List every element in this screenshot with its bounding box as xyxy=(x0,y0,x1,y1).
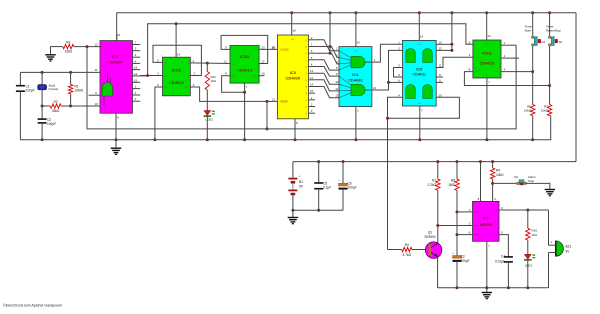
junction thresh/discharge b xyxy=(456,233,459,236)
svg-text:NE555: NE555 xyxy=(480,222,493,227)
IC4 left pin labels xyxy=(335,47,339,98)
wire: IC2/2 pin13 Q to IC3 pin10 clock xyxy=(259,45,277,49)
svg-text:Vss: Vss xyxy=(485,75,488,77)
svg-text:C4: C4 xyxy=(501,255,505,259)
svg-text:©ElecCircuit.com Apichet Gara: ©ElecCircuit.com Apichet Garaipoom xyxy=(3,304,62,308)
svg-text:100pF: 100pF xyxy=(47,122,56,126)
wire: Q1 collector up to R7b xyxy=(437,226,439,244)
svg-text:Q1: Q1 xyxy=(428,231,432,235)
wire: IC2/1 D-Qbar loop xyxy=(153,45,201,75)
IC5 pin9/8 stubs xyxy=(436,77,443,82)
svg-text:1kΩ: 1kΩ xyxy=(532,233,538,237)
svg-text:10: 10 xyxy=(335,80,339,84)
IC5 left pin labels xyxy=(398,40,400,97)
wire: IC2/2 pin7 down to ground bus xyxy=(245,83,248,140)
resistor R10 1k xyxy=(526,210,538,254)
capacitor C6 (electrolytic) xyxy=(338,162,357,211)
junction R3 / reset riser xyxy=(86,45,89,48)
svg-text:CD4020: CD4020 xyxy=(286,76,301,81)
svg-text:+: + xyxy=(338,179,340,183)
junction VDD rail 555 pin8 xyxy=(479,160,482,163)
IC7 left pins xyxy=(438,208,473,235)
wire: IC3 to IC4 braid xyxy=(315,40,339,98)
wire: IC5 pin4 to Q1 base line xyxy=(388,97,403,249)
IC7 pin8 stub to VDD rail xyxy=(478,162,481,202)
IC6 pin2 stub xyxy=(501,57,519,59)
junction Q1a / R11 xyxy=(206,62,209,65)
IC1 internal pin marks xyxy=(102,47,104,75)
IC5 pin14 stub xyxy=(419,13,423,41)
junction on top rail at S2 xyxy=(548,11,551,14)
resistor R1 10M xyxy=(68,72,83,106)
svg-text:R4: R4 xyxy=(405,243,409,247)
IC3 pin8 stub to ground bus xyxy=(295,119,298,140)
svg-text:1MΩ: 1MΩ xyxy=(448,183,455,187)
junction gnd bus IC4 pin7 xyxy=(354,138,357,141)
wire: IC6 pin8 to S2 net xyxy=(464,72,549,86)
junction on top rail at IC5 pin14 xyxy=(418,11,421,14)
wire: LED2 to ground bus xyxy=(206,116,208,139)
svg-text:Crystal: Crystal xyxy=(49,87,59,91)
buzzer BZ1 9V xyxy=(549,241,572,257)
svg-text:100µF: 100µF xyxy=(348,186,357,190)
attribution text xyxy=(3,304,62,308)
svg-text:IC6/1: IC6/1 xyxy=(482,51,492,56)
switch S1 (Timer Start) xyxy=(525,25,546,47)
ground (battery) xyxy=(288,210,298,223)
IC3 right pin stubs xyxy=(305,36,315,115)
svg-text:IC1: IC1 xyxy=(112,54,119,59)
svg-text:R9: R9 xyxy=(496,169,500,173)
IC6 pin labels xyxy=(469,40,506,71)
svg-text:11: 11 xyxy=(224,60,227,64)
junction thresh/discharge a xyxy=(456,210,459,213)
svg-text:CLK: CLK xyxy=(232,64,237,66)
svg-text:R8: R8 xyxy=(451,179,455,183)
svg-text:CLOCK: CLOCK xyxy=(281,49,290,52)
junction osc top Xtal xyxy=(41,71,44,74)
IC1 pin 8 stub to ground bus xyxy=(116,113,119,140)
resistor R4 4.7k xyxy=(402,243,426,257)
svg-text:LED1: LED1 xyxy=(525,264,533,268)
resistor R2 33k xyxy=(50,100,61,113)
wire: IC2/2 D-Qbar loop xyxy=(221,35,268,63)
junction tie 12 xyxy=(450,49,453,52)
svg-text:R2: R2 xyxy=(54,100,58,104)
junction pin3 / R10 xyxy=(526,209,529,212)
svg-text:16: 16 xyxy=(292,29,296,33)
svg-text:Start: Start xyxy=(525,29,532,33)
IC3 pin10/11 labels xyxy=(272,45,276,101)
svg-text:11: 11 xyxy=(438,64,441,68)
svg-text:C3: C3 xyxy=(461,255,465,259)
svg-text:11: 11 xyxy=(335,87,338,91)
IC5 pin7 stub to ground bus xyxy=(420,106,423,140)
transistor Q1 2N3904 xyxy=(424,231,441,259)
svg-text:1kΩ: 1kΩ xyxy=(211,79,217,83)
junction IC4 pin13 branch xyxy=(387,81,390,84)
junction on top rail at IC3 pin16 xyxy=(290,11,293,14)
svg-text:R7: R7 xyxy=(432,179,436,183)
svg-text:10kΩ: 10kΩ xyxy=(524,109,532,113)
svg-text:15: 15 xyxy=(310,89,314,93)
wire: IC2/1 pin6 to ground bus xyxy=(155,83,163,140)
ground (555 section) xyxy=(482,288,492,299)
svg-text:Vcc: Vcc xyxy=(418,44,421,46)
junction gnd bus LED2 xyxy=(206,138,209,141)
battery B1 9V xyxy=(288,175,303,200)
svg-text:Stop: Stop xyxy=(528,179,535,183)
wire: C1 top lead xyxy=(19,72,21,85)
svg-text:220µF: 220µF xyxy=(461,259,470,263)
junction line2 / IC1 pin13 xyxy=(146,74,149,77)
ground (IC1 pin 8) xyxy=(111,140,121,155)
wire: S1 riser xyxy=(532,13,534,105)
wire: bottom ground rail xyxy=(438,287,549,289)
IC1 right pin stubs xyxy=(129,41,147,104)
svg-text:2N3904: 2N3904 xyxy=(424,235,435,239)
NAND gate IC5a xyxy=(406,49,416,63)
wire: IC5 pin10 feedback xyxy=(388,97,460,118)
svg-text:S2: S2 xyxy=(559,40,563,44)
junction tie 13 xyxy=(450,43,453,46)
svg-text:CD4013: CD4013 xyxy=(169,80,184,85)
junction tie riser a xyxy=(329,45,332,48)
junction R2/Xtal node xyxy=(41,105,44,108)
resistor R7 2.2k xyxy=(428,162,440,226)
svg-text:CD4013: CD4013 xyxy=(237,68,252,73)
junction IC2/2 gnd node xyxy=(243,91,246,94)
svg-text:IC3: IC3 xyxy=(290,70,297,75)
svg-text:220pF: 220pF xyxy=(26,89,35,93)
svg-text:0.1µF: 0.1µF xyxy=(323,186,331,190)
wire: IC2/1 pin1 Q to IC2/2 pin11 xyxy=(190,59,230,64)
svg-text:12: 12 xyxy=(310,76,314,80)
junction gnd bus C2 xyxy=(41,138,44,141)
svg-text:13: 13 xyxy=(134,72,138,76)
svg-text:14: 14 xyxy=(134,66,138,70)
svg-text:10: 10 xyxy=(438,93,442,97)
svg-text:13: 13 xyxy=(310,69,314,73)
svg-text:CLK: CLK xyxy=(164,76,169,78)
wire: VDD top rail left drop to IC1 pin 16 xyxy=(116,13,118,41)
capacitor C5 xyxy=(314,162,331,211)
wire: VDD lower rail (battery to right riser) xyxy=(293,161,576,163)
wire: pin3 to buzzer + xyxy=(548,210,550,245)
resistor R11 1k xyxy=(205,63,217,90)
wire: IC6 pin4 to S1 net xyxy=(501,71,533,73)
svg-text:10: 10 xyxy=(261,72,265,76)
wire: IC5 pins13/12 tie-high xyxy=(436,13,452,51)
wire: R11 to LED2 xyxy=(206,90,208,111)
svg-text:S3: S3 xyxy=(514,175,518,179)
svg-text:CV: CV xyxy=(494,235,498,237)
resistor R3 10k xyxy=(51,41,101,54)
junction gnd bus IC5 pin7 xyxy=(418,138,421,141)
svg-text:14: 14 xyxy=(487,34,491,38)
junction osc top R1 xyxy=(69,71,72,74)
svg-text:12: 12 xyxy=(261,60,265,64)
wire: osc top net (C1/Xtal/R1/IC1 pin11) xyxy=(20,71,100,73)
IC U5 (IC5 CD4011) xyxy=(403,40,437,106)
svg-text:0.01µF: 0.01µF xyxy=(495,260,505,264)
junction VDD rail R8 xyxy=(456,160,459,163)
junction on top rail at IC5 tie riser xyxy=(450,11,453,14)
IC6 pin7 stub to ground bus xyxy=(487,78,490,140)
IC4 pin7 stub to ground bus xyxy=(356,107,359,140)
junction on top rail at tie-high riser xyxy=(329,11,332,14)
wire: Q1 base feed corner xyxy=(388,249,402,251)
wire: clock line 2 (IC1 pin13 to IC6 pin5) xyxy=(148,24,473,76)
svg-text:Vss: Vss xyxy=(418,103,421,105)
IC3 pin16 stub to VDD rail xyxy=(292,13,296,35)
svg-text:IC2/1: IC2/1 xyxy=(172,68,182,73)
wire: R9 node to S3 xyxy=(493,182,518,184)
wire: IC2/2 pin8 set to gnd node xyxy=(222,72,245,93)
wire: battery top lead xyxy=(292,162,294,178)
wire: osc bottom net with R2 xyxy=(42,105,50,107)
svg-text:15: 15 xyxy=(134,78,138,82)
junction VDD rail R7 xyxy=(436,160,439,163)
junction VDD rail C5 xyxy=(317,160,320,163)
wire: battery section bottom xyxy=(293,209,343,211)
capacitor C4 xyxy=(495,255,513,288)
IC U4 (IC4 CD4082) xyxy=(339,47,372,107)
IC7 right pins xyxy=(499,206,549,257)
svg-text:IC7: IC7 xyxy=(483,216,490,221)
junction bottom LED1 xyxy=(526,286,529,289)
resistor R6 10k xyxy=(524,105,535,140)
svg-text:LED2: LED2 xyxy=(205,118,213,122)
wire: VDD top rail (pin16 net) xyxy=(117,12,576,14)
IC U2a (IC2/1 CD4013) xyxy=(163,57,191,96)
svg-text:10kΩ: 10kΩ xyxy=(541,109,549,113)
wire: branch to IC5 pin6 xyxy=(389,81,403,83)
junction gnd bus R6 xyxy=(531,138,534,141)
svg-text:DIS: DIS xyxy=(474,212,478,214)
capacitor C3 (electrolytic) xyxy=(452,252,470,288)
IC U7 (IC7 NE555) xyxy=(473,201,500,241)
svg-text:CD4060: CD4060 xyxy=(108,60,123,65)
svg-text:Vcc: Vcc xyxy=(354,50,357,52)
svg-text:B1: B1 xyxy=(299,180,303,184)
svg-text:IC5: IC5 xyxy=(416,68,422,72)
wire: IC6 pin1 Q to reset bus xyxy=(501,44,516,46)
wire: tie-high riser to braid xyxy=(329,13,331,54)
resistor R8 1M xyxy=(448,162,459,256)
resistor R7 10k xyxy=(541,105,552,116)
junction batt bottom xyxy=(291,209,294,212)
svg-text:14: 14 xyxy=(356,41,360,45)
svg-text:12: 12 xyxy=(438,46,442,50)
svg-text:+: + xyxy=(551,241,553,245)
capacitor C1 xyxy=(16,85,35,140)
junction R9 / S3 xyxy=(491,182,494,185)
junction on top rail at S1 xyxy=(531,11,534,14)
svg-text:Reset/Stop: Reset/Stop xyxy=(546,29,561,33)
svg-text:13: 13 xyxy=(261,45,265,49)
IC5 right pin labels xyxy=(438,40,442,97)
svg-text:2.2kΩ: 2.2kΩ xyxy=(428,183,437,187)
junction tie riser b xyxy=(329,52,332,55)
junction R1 bottom node xyxy=(69,105,72,108)
IC U2b (IC2/2 CD4013) xyxy=(230,46,259,84)
svg-text:10kΩ: 10kΩ xyxy=(496,173,504,177)
svg-text:TRI: TRI xyxy=(474,226,478,228)
svg-text:13: 13 xyxy=(438,40,442,44)
wire: IC4 pin1 to IC5 pin1 xyxy=(365,44,403,62)
svg-text:12: 12 xyxy=(94,42,98,46)
svg-text:Vcc: Vcc xyxy=(175,61,178,63)
junction gnd bus IC2/1 pin6 xyxy=(153,138,156,141)
svg-text:14: 14 xyxy=(420,35,424,39)
svg-text:14: 14 xyxy=(177,53,181,57)
junction gnd bus IC1 pin8 xyxy=(115,138,118,141)
wire: Q1 emitter down to bottom rail xyxy=(437,257,439,288)
junction bottom C3 xyxy=(456,286,459,289)
svg-text:S1: S1 xyxy=(542,40,546,44)
AND gate IC4b xyxy=(351,84,365,96)
svg-text:RESET: RESET xyxy=(281,101,290,104)
svg-text:R3: R3 xyxy=(66,41,70,45)
svg-text:+: + xyxy=(452,252,454,256)
op-amp U1 (IC1 internal osc gate) xyxy=(100,41,133,114)
junction gnd bus IC3 pin8 xyxy=(294,138,297,141)
IC7 pin4 label xyxy=(494,197,496,201)
svg-text:CD4013: CD4013 xyxy=(480,61,495,66)
wire: S3 to ground xyxy=(525,183,550,189)
svg-text:4.7kΩ: 4.7kΩ xyxy=(403,253,412,257)
svg-text:IC4: IC4 xyxy=(352,72,359,77)
wire: VDD top rail right drop to lower VDD rail xyxy=(575,13,577,162)
resistor R9 10k xyxy=(490,162,504,202)
IC2/2 pin10 stub xyxy=(259,72,265,76)
junction on top rail at IC6 pin14 xyxy=(485,11,488,14)
wire: IC1 pin13 to IC2/1 pin3 (clock) xyxy=(140,72,162,76)
junction C5 bottom xyxy=(317,209,320,212)
IC U3 (IC3 CD4020) xyxy=(277,35,308,119)
junction pin10/pin4 node xyxy=(386,117,389,120)
LED LED2 xyxy=(204,111,215,122)
svg-text:CLK: CLK xyxy=(474,57,479,59)
switch S2 (Timer Reset/Stop) xyxy=(546,25,563,47)
junction bottom pin1 xyxy=(485,286,488,289)
wire: reset bus rail xyxy=(87,45,516,129)
junction gnd bus IC2/2 gnd xyxy=(243,138,246,141)
capacitor C2 xyxy=(38,106,56,140)
NAND gate IC5d xyxy=(423,85,433,99)
junction VDD rail C6 xyxy=(342,160,345,163)
IC U6 (IC6/1 CD4013) xyxy=(473,40,501,78)
svg-text:33kΩ: 33kΩ xyxy=(52,109,60,113)
svg-text:11: 11 xyxy=(272,97,275,101)
svg-text:+: + xyxy=(299,175,301,179)
switch S3 (Alarm Stop) xyxy=(514,175,536,185)
svg-text:IC2/2: IC2/2 xyxy=(240,54,250,59)
IC4 pin14 stub xyxy=(356,13,360,47)
wire: IC5 pin3-pin5 loop xyxy=(394,68,403,78)
junction on top rail at IC4 pin14 xyxy=(354,11,357,14)
wire: buzzer - to bottom rail xyxy=(548,253,550,288)
wire: IC2/1 pin14 riser xyxy=(175,24,177,57)
junction S1 riser / pin4 xyxy=(531,70,534,73)
wire: battery bottom lead xyxy=(292,194,294,210)
svg-text:THR: THR xyxy=(474,235,479,237)
IC6 pin14 stub xyxy=(487,13,491,40)
svg-text:Q: Q xyxy=(496,210,498,212)
wire: R2 right to IC1 pin10 xyxy=(61,105,100,107)
AND gate IC4a xyxy=(351,56,365,68)
svg-text:13: 13 xyxy=(373,86,377,90)
junction reset bus at IC3 riser xyxy=(266,127,269,130)
crystal Xtal1 xyxy=(38,72,59,106)
svg-text:Vcc: Vcc xyxy=(291,39,294,41)
svg-text:10kΩ: 10kΩ xyxy=(65,49,73,53)
wire: reset riser to IC3 pin11 wire xyxy=(266,101,268,128)
wire: IC5 pin11 to IC6 pin3 xyxy=(436,57,473,67)
svg-text:Vcc: Vcc xyxy=(243,49,246,51)
IC7 pin1 stub to bottom rail xyxy=(487,241,490,287)
svg-text:10: 10 xyxy=(272,45,276,49)
junction line2 / IC2-1 pin14 xyxy=(175,22,178,25)
IC2/1 pin14 label xyxy=(177,53,181,57)
wire: S2 riser xyxy=(549,13,551,105)
junction reset riser top xyxy=(266,100,269,103)
svg-text:CD4011: CD4011 xyxy=(412,73,426,77)
ground (R3) xyxy=(45,55,55,61)
junction bottom C4 xyxy=(507,286,510,289)
IC1 pin 16 stub xyxy=(117,33,121,41)
svg-text:14: 14 xyxy=(310,83,314,87)
junction gnd bus IC6 pin7 xyxy=(485,138,488,141)
wire: IC4 pin13 to IC5 pin2 xyxy=(365,50,403,90)
wire: LED1 to bottom rail xyxy=(527,260,529,288)
junction trigger node xyxy=(436,224,439,227)
svg-text:BZ1: BZ1 xyxy=(566,245,572,249)
svg-text:Vcc: Vcc xyxy=(485,43,488,45)
svg-text:10MΩ: 10MΩ xyxy=(75,89,84,93)
junction S2 riser / pin8 net xyxy=(548,84,551,87)
svg-text:11: 11 xyxy=(94,68,97,72)
ground (S3) xyxy=(545,190,555,196)
svg-text:16: 16 xyxy=(117,33,121,37)
NAND gate IC5c xyxy=(406,85,416,99)
NAND gate IC5b xyxy=(423,49,433,63)
LED LED1 xyxy=(524,254,535,267)
wire: ground bus rail xyxy=(20,116,550,140)
svg-text:10: 10 xyxy=(94,102,98,106)
wire: R3 left drop to ground xyxy=(50,47,52,55)
junction VDD rail R9 xyxy=(491,160,494,163)
wire: IC2/1 pin4 reset to IC3 pin11 xyxy=(190,83,277,101)
svg-text:CD4082: CD4082 xyxy=(348,78,363,83)
IC1 left pin labels xyxy=(89,42,101,105)
svg-text:12: 12 xyxy=(335,94,339,98)
